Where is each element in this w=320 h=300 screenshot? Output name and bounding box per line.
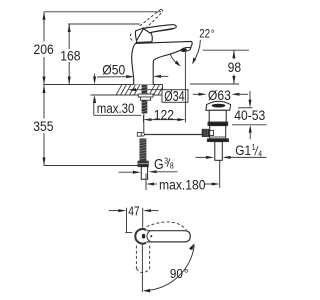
svg-text:3: 3 <box>164 156 168 166</box>
countertop deck slab <box>44 85 163 96</box>
22° swivel arc left with arrow <box>170 54 181 67</box>
dimension G3/8 label <box>154 156 174 172</box>
dimension G3/8 arrows <box>119 170 178 173</box>
waste tailpipe centerline (max.180 right extension) <box>219 161 221 189</box>
waste tailpipe <box>215 142 223 161</box>
svg-text:90 °: 90 ° <box>170 267 189 282</box>
svg-text:max.30: max.30 <box>97 101 135 116</box>
waste bottom locknut <box>207 139 228 142</box>
waste upper neck <box>209 110 226 122</box>
svg-text:168: 168 <box>60 48 80 64</box>
svg-text:40-53: 40-53 <box>234 107 265 123</box>
dimension 90° label <box>170 267 189 282</box>
faucet mounting shank (threaded, below deck) <box>141 85 147 113</box>
dimension max.180 <box>146 174 220 193</box>
dimension Ø50 (faucet base diameter) <box>97 62 168 78</box>
spout aerator outlet <box>181 47 191 52</box>
waste rubber seal ring <box>208 122 228 126</box>
dimension 122 right extension line (spout outlet axis) <box>184 52 186 122</box>
top view: lever blade <box>145 231 190 242</box>
lever handle blade (side view) <box>143 25 176 33</box>
dimension Ø34 boxed (required hole) with leader arrow <box>128 87 188 104</box>
dimension 355 <box>33 85 53 166</box>
waste pull rod (vertical) <box>143 113 145 133</box>
dimension 90° arc <box>143 243 195 292</box>
flexible supply hose (braided) <box>139 139 146 162</box>
dimension 40-53 upper extension line (flange underside) <box>238 107 252 109</box>
dimension 168 extension line top <box>68 23 140 25</box>
svg-text:98: 98 <box>228 59 242 75</box>
lever handle dome (side view) <box>135 28 152 43</box>
svg-text:355: 355 <box>33 118 53 134</box>
waste body <box>210 126 226 139</box>
dimension G1 1/4 label <box>235 142 262 158</box>
faucet body (side view) <box>132 41 193 84</box>
lever raised position (dashed outline) <box>130 9 163 41</box>
dimension 98 <box>228 50 242 84</box>
dimension 98 reference line at spout outlet level <box>203 49 249 51</box>
svg-text:22 °: 22 ° <box>199 28 215 41</box>
countertop deck reference line right of faucet <box>190 83 239 85</box>
dimension G1 1/4 arrows <box>196 156 267 159</box>
dimension 355 bottom extension line (hose end level) <box>44 165 139 167</box>
top view: pivot centerline <box>141 244 143 291</box>
22° swivel arc right with arrow <box>192 40 200 65</box>
dimension 22° label <box>199 28 215 41</box>
dimension 40-53 lower extension line (seal top) <box>232 124 267 126</box>
svg-text:Ø50: Ø50 <box>102 62 125 78</box>
hose end fitting nut <box>138 161 148 166</box>
dimension Ø63 <box>193 87 248 103</box>
top view: dimension 47 <box>109 206 159 233</box>
dimension max.30 (deck thickness) <box>93 74 141 117</box>
waste ball-rod knob <box>202 129 213 136</box>
svg-text:G1: G1 <box>235 142 251 158</box>
top view: lever rotated down position (dashed) <box>136 246 149 273</box>
svg-text:122: 122 <box>154 107 174 123</box>
svg-text:Ø34: Ø34 <box>164 87 184 104</box>
dimension 168 <box>60 24 80 85</box>
svg-text:max.180: max.180 <box>159 177 206 193</box>
pop-up waste flange <box>206 101 231 110</box>
top view: pivot slot mark <box>142 234 152 239</box>
svg-text:G: G <box>154 156 164 172</box>
dimension 122 <box>143 107 185 123</box>
svg-text:8: 8 <box>170 161 174 171</box>
shank washer and nut <box>138 94 153 100</box>
dimension 206 <box>34 12 54 85</box>
svg-text:206: 206 <box>34 42 54 58</box>
top view: swung lever dashed arc <box>147 222 187 230</box>
dimension 206 extension line top <box>44 11 161 13</box>
top view: spout outlet mark <box>125 232 132 234</box>
hose connection thread G3/8 tube <box>141 167 147 180</box>
svg-text:47: 47 <box>128 206 139 219</box>
pop-up actuation rod (horizontal) <box>137 132 203 136</box>
svg-text:1: 1 <box>252 142 256 152</box>
dimension 40-53 <box>234 91 265 139</box>
top view: lever pivot circle <box>135 229 146 244</box>
